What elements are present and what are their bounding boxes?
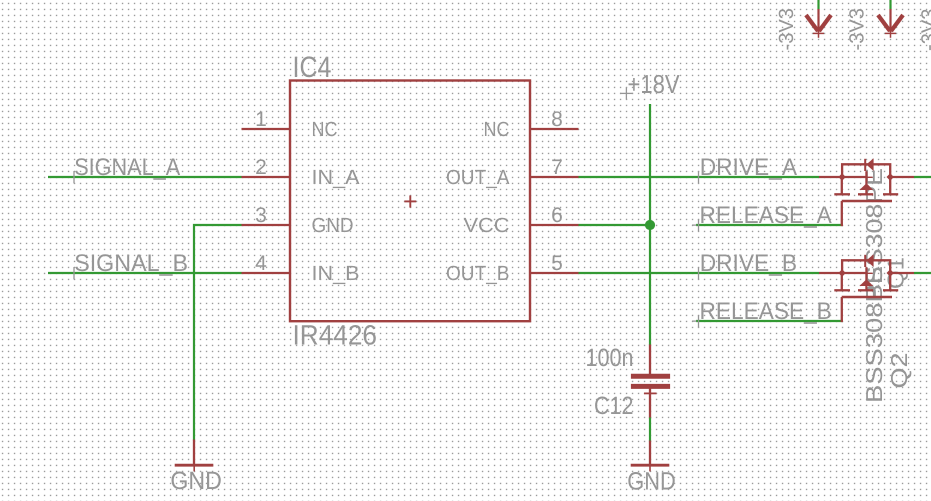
svg-text:NC: NC xyxy=(312,118,338,141)
channel stubs xyxy=(841,273,843,290)
arrow shaft xyxy=(817,9,819,32)
svg-text:100n: 100n xyxy=(586,344,634,372)
svg-text:RELEASE_A: RELEASE_A xyxy=(700,202,832,229)
arrow shaft xyxy=(889,9,891,32)
transistor Q2 BSS308PE xyxy=(819,254,914,403)
svg-text:NC: NC xyxy=(484,118,510,141)
svg-text:IR4426: IR4426 xyxy=(293,320,378,351)
arrow head xyxy=(878,15,890,31)
ground GND (left) xyxy=(170,440,222,496)
wire RELEASE_A xyxy=(696,224,843,226)
channel stubs xyxy=(841,177,843,194)
wire SIGNAL_B xyxy=(48,272,242,274)
supply -3V3 (3, clipped at edge) xyxy=(918,9,931,52)
svg-text:OUT_B: OUT_B xyxy=(446,262,510,285)
svg-text:RELEASE_B: RELEASE_B xyxy=(700,298,832,325)
net label SIGNAL_A xyxy=(74,154,180,183)
svg-text:DRIVE_A: DRIVE_A xyxy=(700,154,797,181)
junction dot VCC/+18V xyxy=(645,220,655,230)
wire OUT_B / DRIVE_B xyxy=(579,272,820,274)
pin 1 NC xyxy=(242,128,291,130)
wire +18V vertical xyxy=(649,104,651,345)
origin cross xyxy=(885,32,896,34)
pin 4 IN_B xyxy=(242,272,291,274)
net label DRIVE_B xyxy=(699,250,798,279)
net label RELEASE_B xyxy=(692,298,832,327)
gate lead xyxy=(842,201,843,225)
junction diamond left xyxy=(838,173,845,180)
drain pin xyxy=(819,176,843,178)
svg-text:SIGNAL_B: SIGNAL_B xyxy=(74,250,188,277)
svg-text:Q2: Q2 xyxy=(886,353,912,389)
drain pin xyxy=(819,272,843,274)
svg-text:IN_A: IN_A xyxy=(312,166,360,189)
wire stub xyxy=(817,0,819,10)
gate plate xyxy=(842,200,892,202)
pin 6 VCC xyxy=(530,224,579,226)
IC origin cross xyxy=(404,200,416,202)
wire GND net (pin3 to ground) xyxy=(194,225,242,441)
pin 5 OUT_B xyxy=(530,272,579,274)
pin 8 NC xyxy=(530,128,579,130)
body diode loop xyxy=(842,164,890,177)
channel bars xyxy=(834,193,850,195)
svg-text:IN_B: IN_B xyxy=(312,262,360,285)
capacitor C12 xyxy=(586,344,671,420)
wire Q2 source out xyxy=(914,272,931,274)
wire OUT_A / DRIVE_A xyxy=(579,176,820,178)
wire SIGNAL_A xyxy=(48,176,242,178)
origin cross xyxy=(860,176,873,178)
body tie segment xyxy=(842,272,867,274)
svg-text:+18V: +18V xyxy=(628,69,681,99)
source pin xyxy=(889,176,914,178)
ground GND (C12) xyxy=(627,441,676,496)
diode anode triangle xyxy=(866,254,873,267)
svg-text:-3V3: -3V3 xyxy=(918,9,931,52)
body vertical xyxy=(865,171,867,193)
gate lead xyxy=(842,297,843,321)
svg-text:3: 3 xyxy=(255,204,267,227)
diode cathode bar xyxy=(864,159,866,171)
supply -3V3 (2) xyxy=(846,0,904,51)
IC4 body outline xyxy=(290,81,530,322)
origin cross xyxy=(860,272,873,274)
body vertical xyxy=(865,267,867,289)
svg-text:GND: GND xyxy=(170,467,222,495)
net label SIGNAL_B xyxy=(74,250,188,279)
svg-text:GND: GND xyxy=(627,468,676,496)
substrate arrow xyxy=(859,183,873,190)
svg-text:BSS308PE: BSS308PE xyxy=(861,266,887,403)
body tie segment xyxy=(842,176,867,178)
pin 7 OUT_A xyxy=(530,176,579,178)
wire Q1 source out xyxy=(914,176,931,178)
svg-text:4: 4 xyxy=(255,252,267,275)
svg-text:-3V3: -3V3 xyxy=(846,8,869,51)
wire VCC row xyxy=(579,224,651,226)
wire RELEASE_B xyxy=(696,320,843,322)
svg-text:SIGNAL_A: SIGNAL_A xyxy=(74,154,180,181)
svg-text:-3V3: -3V3 xyxy=(775,8,798,51)
diode cathode bar xyxy=(864,255,866,267)
junction diamond right xyxy=(887,269,894,276)
svg-text:IC4: IC4 xyxy=(293,51,332,84)
svg-text:5: 5 xyxy=(551,252,563,275)
svg-text:GND: GND xyxy=(312,214,354,237)
wire C12 to GND xyxy=(649,418,651,442)
pin 2 IN_A xyxy=(242,176,291,178)
svg-text:7: 7 xyxy=(551,156,563,179)
net label DRIVE_A xyxy=(699,154,798,183)
IC IC4 IR4426 xyxy=(242,51,579,351)
supply -3V3 (1) xyxy=(775,0,831,51)
wire stub xyxy=(889,0,891,10)
pin 3 GND xyxy=(242,224,291,226)
svg-text:8: 8 xyxy=(551,108,563,131)
transistor Q1 BSS308PE xyxy=(819,158,914,302)
origin cross xyxy=(813,32,824,34)
svg-text:1: 1 xyxy=(255,108,267,131)
substrate arrow xyxy=(859,279,873,286)
diode anode triangle xyxy=(866,158,873,171)
body diode loop xyxy=(842,260,890,273)
net label RELEASE_A xyxy=(692,202,832,231)
svg-text:OUT_A: OUT_A xyxy=(446,166,510,189)
supply +18V xyxy=(620,69,680,99)
junction diamond left xyxy=(838,269,845,276)
junction diamond right xyxy=(887,173,894,180)
svg-text:DRIVE_B: DRIVE_B xyxy=(700,250,797,277)
svg-text:2: 2 xyxy=(255,156,267,179)
svg-text:VCC: VCC xyxy=(464,214,510,237)
channel bars xyxy=(834,289,850,291)
arrow head xyxy=(806,15,818,31)
svg-text:6: 6 xyxy=(551,204,563,227)
source pin xyxy=(889,272,914,274)
gate plate xyxy=(842,296,892,298)
svg-text:C12: C12 xyxy=(594,392,634,420)
